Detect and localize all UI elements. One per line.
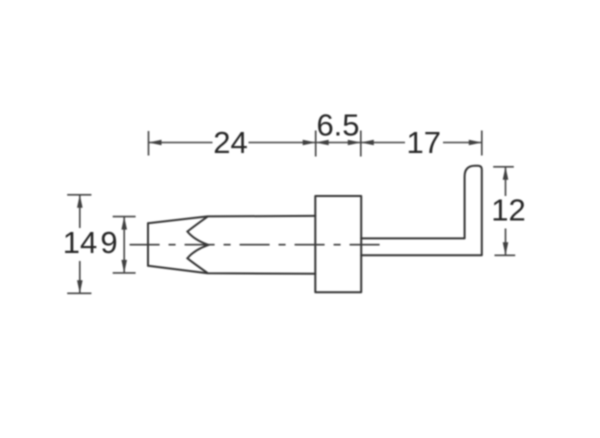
- dimension line 17 right segment: [443, 142, 482, 144]
- dim 12 lower line segment: [505, 229, 507, 256]
- pin body tip left edge: [147, 223, 149, 266]
- arrowhead 17 right: [469, 140, 482, 146]
- svg-text:12: 12: [491, 193, 525, 228]
- dim 14 lower line segment: [79, 261, 81, 293]
- svg-text:6.5: 6.5: [316, 108, 359, 143]
- dimension line 24 left segment: [149, 142, 213, 144]
- svg-text:17: 17: [407, 125, 441, 160]
- dim 9 top tick: [113, 216, 136, 218]
- arrowhead 17 left: [361, 140, 374, 146]
- arrowhead 24 right: [303, 140, 316, 146]
- serration zigzag on pin tip: [187, 217, 208, 273]
- arrowhead 6.5 left: [316, 140, 329, 146]
- dim 9 bottom tick: [113, 272, 136, 274]
- dim 9 line: [123, 217, 125, 273]
- arrowhead 9 up: [121, 217, 127, 230]
- arrowhead 12 up: [503, 167, 509, 180]
- dimension line 6.5: [316, 142, 361, 144]
- dim 12 upper line segment: [505, 167, 507, 196]
- extension tick at x=481.8: [481, 131, 483, 156]
- dim 14 top tick: [67, 194, 91, 196]
- arrowhead 9 down: [121, 260, 127, 273]
- dim 12 top tick: [493, 166, 514, 168]
- arrowhead 6.5 right: [348, 140, 361, 146]
- pin body top taper and top edge: [148, 216, 315, 223]
- dimension line 24 right segment: [249, 142, 316, 144]
- svg-text:14: 14: [63, 225, 97, 260]
- svg-text:24: 24: [213, 125, 247, 160]
- hook lead wire: [361, 166, 482, 256]
- flange block: [315, 196, 361, 292]
- dim 14 upper line segment: [79, 195, 81, 228]
- extension tick at x=360.8: [360, 131, 362, 157]
- dimension line 17 left segment: [361, 142, 405, 144]
- svg-text:9: 9: [100, 225, 117, 260]
- arrowhead 24 left: [149, 140, 162, 146]
- dim 12 bottom tick: [495, 254, 516, 256]
- extension tick at x=315.7: [315, 131, 317, 157]
- dim 14 bottom tick: [67, 292, 91, 294]
- arrowhead 14 down: [77, 280, 83, 293]
- arrowhead 14 up: [77, 195, 83, 208]
- arrowhead 12 down: [503, 242, 509, 255]
- centerline dash-dot: [130, 244, 385, 246]
- pin body bottom taper and bottom edge: [148, 266, 315, 274]
- extension tick at x=148.5 (top dims): [148, 131, 150, 156]
